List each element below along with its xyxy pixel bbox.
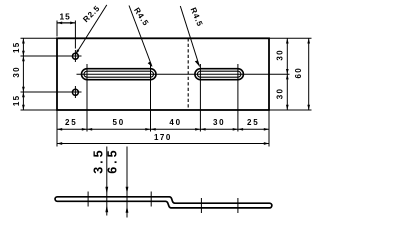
svg-text:30: 30	[12, 66, 21, 78]
slot S1 inner	[84, 71, 154, 77]
leader text R4.5 second	[189, 6, 205, 28]
side view tick slot2 right	[237, 198, 239, 213]
slot S1 outer	[82, 69, 157, 80]
dim line 170	[57, 142, 269, 145]
right dim line 30/30	[286, 38, 289, 110]
bend line (hidden, dashed)	[187, 38, 189, 110]
svg-text:6.5: 6.5	[105, 147, 119, 173]
slot S1 centermarks	[87, 64, 151, 85]
dim text 25 (2nd)	[247, 118, 260, 127]
leader text R2.5	[81, 4, 102, 25]
svg-text:15: 15	[12, 41, 21, 53]
dim 15 top (hole offset)	[57, 12, 75, 49]
dim text 30 left	[12, 66, 21, 78]
side view profile (Z-bend plate)	[55, 197, 272, 208]
dim text 3.5	[91, 147, 105, 173]
dim text 30 right lower	[275, 88, 284, 100]
bottom dims extension lines	[57, 85, 269, 147]
side view tick slot2 left	[200, 198, 202, 213]
hole H1	[72, 53, 78, 59]
dim text 60	[294, 67, 303, 79]
slot centerline	[77, 73, 290, 75]
dim 6.5 (side view)	[126, 147, 129, 218]
hole H2 centermark	[69, 86, 82, 98]
svg-text:60: 60	[294, 67, 303, 79]
leader R4.5 first	[129, 6, 152, 67]
dim 3.5 (side view)	[105, 147, 108, 216]
leader R2.5	[76, 5, 107, 55]
svg-text:25: 25	[247, 118, 260, 127]
dim text 50	[113, 118, 126, 127]
svg-text:3.5: 3.5	[91, 147, 105, 173]
left dim chain extension lines	[21, 38, 70, 110]
slot S2 inner	[197, 71, 241, 77]
hole H1 centermark	[69, 50, 82, 62]
plate outline	[57, 38, 269, 110]
right dim line 60	[307, 38, 310, 110]
left dim chain line	[22, 38, 25, 110]
side view tick slot1 left	[87, 192, 89, 207]
dim text 30 right upper	[275, 49, 284, 61]
dim text 25 (1st)	[65, 118, 78, 127]
leader R4.5 second	[180, 6, 199, 67]
hole H2	[72, 89, 78, 95]
dim text 40	[169, 118, 182, 127]
dim text 6.5	[105, 147, 119, 173]
slot S2 outer	[195, 69, 244, 80]
svg-text:30: 30	[275, 49, 284, 61]
svg-text:15: 15	[12, 95, 21, 107]
slot S2 centermarks	[200, 64, 238, 85]
svg-text:15: 15	[59, 12, 70, 22]
right dims extension lines	[269, 38, 312, 110]
svg-text:40: 40	[169, 118, 182, 127]
svg-text:30: 30	[213, 118, 226, 127]
svg-text:30: 30	[275, 88, 284, 100]
dim text 15 left lower	[12, 95, 21, 107]
svg-text:50: 50	[113, 118, 126, 127]
side view tick slot1 right	[150, 192, 152, 207]
bottom dim chain line 25/50/40/30/25	[57, 128, 269, 131]
dim text 15 left upper	[12, 41, 21, 53]
dim text 170	[154, 133, 172, 142]
svg-text:170: 170	[154, 133, 172, 142]
leader text R4.5 first	[132, 6, 151, 28]
dim text 30 bottom	[213, 118, 226, 127]
svg-text:25: 25	[65, 118, 78, 127]
